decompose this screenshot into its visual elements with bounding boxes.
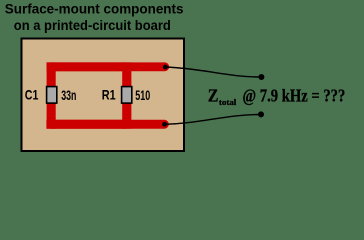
svg-text:total: total — [219, 97, 237, 107]
svg-text:R1: R1 — [102, 87, 116, 103]
svg-text:33n: 33n — [61, 87, 76, 103]
svg-text:510: 510 — [135, 87, 150, 103]
svg-text:C1: C1 — [25, 87, 39, 103]
svg-text:@ 7.9 kHz = ???: @ 7.9 kHz = ??? — [243, 85, 346, 105]
svg-text:Z: Z — [208, 85, 219, 105]
svg-text:Surface-mount components: Surface-mount components — [5, 1, 184, 16]
svg-text:on a printed-circuit board: on a printed-circuit board — [14, 18, 171, 33]
